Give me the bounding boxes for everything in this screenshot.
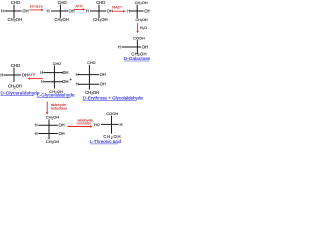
molecule S1 (top-left aldose) [1,0,29,23]
svg-text:HO: HO [94,123,100,127]
label L_blue5 (link, bottom-right) [90,139,122,144]
arrow A1 (red, right) [29,3,43,11]
svg-text:CH2OH: CH2OH [8,84,22,90]
svg-text:H: H [35,123,38,128]
svg-text:ATP: ATP [75,4,83,9]
svg-text:CH2OH: CH2OH [46,139,59,145]
svg-text:kinase: kinase [30,3,44,8]
svg-text:OH: OH [59,123,65,128]
svg-text:H2O: H2O [140,26,147,31]
svg-text:H: H [1,8,4,13]
molecule S9 (bottom-right acid) [94,111,123,140]
svg-text:COOH: COOH [106,111,118,116]
svg-text:CHO: CHO [87,61,95,65]
svg-text:COOH: COOH [133,37,145,41]
svg-text:OH: OH [142,44,148,49]
arrow A4 (red, down, right column) [136,23,147,33]
molecule S6 (middle, two stereocenters) [40,62,68,95]
svg-text:OH: OH [100,72,106,77]
arrow A2 (red, right) [74,4,86,11]
label L_blue1 (link, right column) [124,56,151,61]
svg-text:OH: OH [22,8,28,13]
arrow A6 (red, down, bottom-left) [46,102,67,115]
svg-text:CHO: CHO [96,0,105,5]
arrow A7 (red, right, bottom) [68,118,93,127]
svg-text:ATP: ATP [28,72,36,77]
svg-text:CH2OH: CH2OH [54,17,69,23]
svg-text:OH: OH [100,82,106,87]
svg-text:OH: OH [144,8,150,13]
svg-text:CH2OH: CH2OH [8,17,23,23]
molecule S7 (middle, two stereocenters) [76,61,106,95]
svg-text:CH2OH: CH2OH [46,115,59,121]
svg-text:OH: OH [62,70,68,75]
svg-text:oxidase: oxidase [77,122,92,126]
svg-text:CH2OH: CH2OH [93,17,108,23]
molecule S2 [47,0,75,23]
svg-text:H: H [86,8,89,13]
arrow A3 (red, right) [112,5,126,13]
svg-text:H: H [35,131,38,136]
svg-text:+: + [69,77,72,83]
svg-text:CHO: CHO [11,0,20,5]
molecule L1 (middle-left aldose) [0,63,28,89]
svg-text:D-Erythrose + Glycolaldehyde: D-Erythrose + Glycolaldehyde [83,95,143,100]
svg-text:H: H [0,72,3,77]
svg-text:H: H [40,70,43,75]
svg-text:H: H [47,8,50,13]
label L_blue3 (link, under S6) [37,93,75,98]
svg-text:CHO: CHO [11,63,20,68]
molecule S8 (bottom-left polyol) [35,115,65,145]
svg-text:reductase: reductase [51,106,68,110]
svg-text:H: H [120,122,123,127]
svg-text:CHO: CHO [58,0,67,5]
svg-text:NAD+: NAD+ [112,5,122,10]
molecule S3 [86,0,113,23]
molecule S4 (top-right) [127,1,150,23]
svg-text:L-Glyceraldehyde: L-Glyceraldehyde [37,93,75,98]
svg-text:CH2OH: CH2OH [136,18,149,23]
svg-text:OH: OH [62,79,68,84]
molecule S5 (right column acid) [118,37,148,58]
label L_blue4 (link, under S7, long) [83,95,143,100]
svg-text:OH: OH [59,131,65,136]
svg-text:H: H [118,44,121,49]
svg-text:D-Galactose: D-Galactose [124,56,150,61]
label L_blue2 (link, under L1) [1,91,41,96]
svg-text:D-Glyceraldehyde: D-Glyceraldehyde [1,91,41,96]
arrow A5 (red, left, middle row) [28,72,43,80]
svg-text:H: H [41,79,44,84]
svg-text:L-Threonic acid: L-Threonic acid [90,139,122,144]
